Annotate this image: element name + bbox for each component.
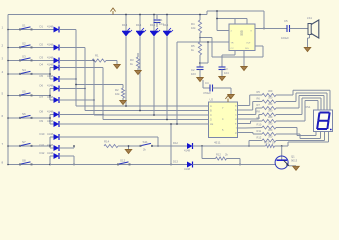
svg-text:D14: D14 [136,23,142,27]
svg-text:R12: R12 [257,135,262,139]
svg-text:D2: D2 [40,43,44,47]
svg-text:R14: R14 [104,140,110,144]
svg-text:100uF: 100uF [281,36,289,40]
svg-text:300: 300 [268,115,273,119]
svg-text:4148: 4148 [184,167,190,171]
svg-text:4148: 4148 [47,132,53,136]
svg-text:D6: D6 [40,84,44,88]
svg-text:S3: S3 [22,54,26,58]
svg-text:S5: S5 [22,89,26,93]
svg-text:4148: 4148 [47,151,53,155]
svg-text:300: 300 [268,96,273,100]
svg-text:300: 300 [268,135,273,139]
svg-text:LS1: LS1 [307,16,312,20]
svg-text:4148: 4148 [47,63,53,67]
svg-text:C: C [210,113,212,117]
svg-text:R6: R6 [257,96,261,100]
svg-text:D4: D4 [40,63,44,67]
svg-text:R10: R10 [257,122,262,126]
svg-text:DS1: DS1 [305,105,311,109]
svg-text:S7: S7 [22,140,26,144]
svg-text:D1: D1 [40,25,44,29]
svg-text:R13: R13 [264,141,269,145]
svg-text:555: 555 [240,30,244,36]
svg-text:D: D [210,118,212,122]
svg-text:D10: D10 [40,132,45,136]
svg-text:S2: S2 [22,41,26,45]
svg-text:S12: S12 [120,158,126,162]
svg-text:D12: D12 [173,141,178,145]
svg-text:10k: 10k [115,92,120,96]
svg-text:103: 103 [191,72,196,76]
svg-text:S11: S11 [143,140,148,144]
svg-text:4148: 4148 [47,43,53,47]
svg-text:10k: 10k [191,26,196,30]
svg-text:4148: 4148 [47,25,53,29]
svg-text:300: 300 [268,89,273,93]
svg-text:D7: D7 [40,95,44,99]
svg-text:OUT: OUT [246,43,251,45]
svg-text:S1: S1 [22,23,26,27]
svg-text:D13: D13 [173,160,178,164]
svg-text:300: 300 [268,102,273,106]
svg-text:104: 104 [224,71,229,75]
svg-text:D9: D9 [40,119,44,123]
svg-text:S8: S8 [22,158,26,162]
svg-text:4511: 4511 [214,141,221,145]
svg-text:R1: R1 [95,54,99,58]
svg-text:R7: R7 [257,103,261,107]
svg-text:104: 104 [159,22,164,26]
svg-text:D12: D12 [40,151,45,155]
svg-text:C5: C5 [284,19,288,23]
svg-text:D8: D8 [40,110,44,114]
svg-text:D5: D5 [40,74,44,78]
svg-text:D11: D11 [40,143,45,147]
svg-text:D3: D3 [40,56,44,60]
svg-text:R11: R11 [257,129,262,133]
svg-text:R5: R5 [257,90,261,94]
svg-text:C4: C4 [205,81,209,85]
svg-text:4148: 4148 [47,110,53,114]
svg-text:4148: 4148 [47,56,53,60]
svg-text:300: 300 [268,128,273,132]
svg-text:470uF: 470uF [203,91,211,95]
svg-text:4148: 4148 [47,84,53,88]
svg-text:CV: CV [231,48,235,50]
svg-text:A: A [210,104,212,108]
svg-text:S6: S6 [22,112,26,116]
svg-text:D13: D13 [122,23,128,27]
svg-text:U2: U2 [210,98,214,102]
svg-text:D15: D15 [150,23,156,27]
svg-text:B: B [210,109,212,113]
svg-text:300: 300 [268,109,273,113]
svg-text:9013: 9013 [291,159,298,163]
svg-text:S4: S4 [22,68,26,72]
svg-text:DIS: DIS [245,48,249,50]
svg-text:TR: TR [231,43,234,45]
svg-text:D16: D16 [163,23,169,27]
svg-text:R8: R8 [257,109,261,113]
svg-text:LE: LE [210,122,213,126]
svg-text:R12: R12 [216,153,221,157]
svg-text:300: 300 [268,122,273,126]
svg-text:4148: 4148 [184,149,190,153]
